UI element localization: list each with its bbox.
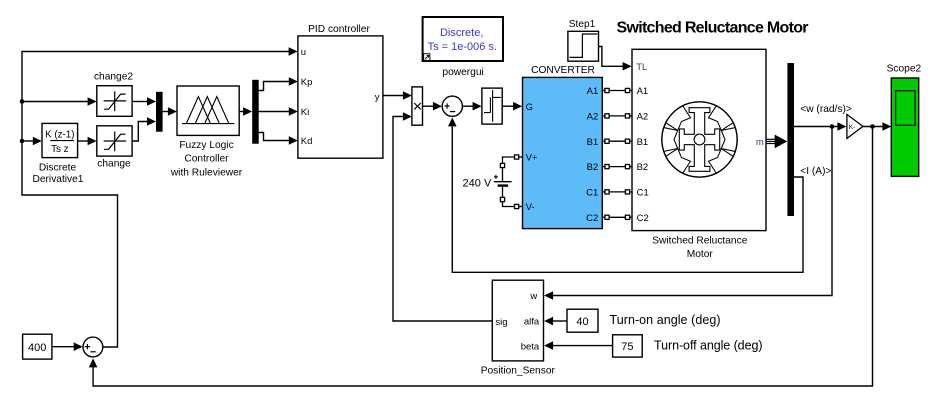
- PID port Ki: [301, 107, 309, 118]
- motor port m: [756, 137, 764, 148]
- DC source V1 240V battery: [500, 155, 522, 209]
- scope screen: [896, 91, 916, 126]
- mux M1: [156, 92, 163, 132]
- motor port C2: [637, 213, 649, 224]
- wire phase C1 converter to motor: [602, 190, 632, 194]
- svg-text:A1: A1: [587, 86, 599, 97]
- motor port C1: [637, 188, 649, 199]
- motor icon stator tooth southeast: [706, 104, 734, 132]
- gain block K: [847, 114, 863, 138]
- battery negative plate: [498, 184, 509, 186]
- sensor port beta: [521, 341, 540, 352]
- svg-text:sig: sig: [495, 317, 507, 328]
- discrete derivative block K(z-1)/Tsz: [42, 123, 78, 157]
- svg-text:75: 75: [621, 341, 633, 353]
- label Derivative1: [33, 174, 84, 185]
- wire 75 to beta: [553, 345, 613, 347]
- svg-text:Turn-off angle (deg): Turn-off angle (deg): [654, 338, 763, 352]
- wire change to mux: [132, 122, 148, 142]
- junction node on gain output: [870, 124, 875, 129]
- motor icon shaft circle: [694, 134, 705, 145]
- svg-text:Step1: Step1: [569, 19, 596, 30]
- svg-text:B1: B1: [637, 137, 649, 148]
- product x symbol: [414, 103, 421, 109]
- svg-text:<I (A)>: <I (A)>: [800, 166, 831, 177]
- position sensor block: [492, 280, 543, 361]
- svg-text:change: change: [97, 159, 131, 170]
- PID port Kp: [301, 77, 313, 88]
- wire sum2 to relay: [462, 105, 473, 107]
- svg-text:TL: TL: [636, 62, 647, 73]
- motor port TL: [636, 62, 647, 73]
- label with Ruleviewer: [170, 167, 243, 178]
- fuzzy logic controller block: [177, 86, 239, 135]
- label change: [97, 159, 131, 170]
- title Switched Reluctance Motor: [617, 19, 809, 36]
- motor block: [632, 49, 766, 230]
- constant block 75: [613, 335, 643, 357]
- svg-text:Ki: Ki: [301, 107, 309, 118]
- label I A: [800, 166, 831, 177]
- svg-text:m: m: [756, 137, 764, 148]
- svg-text:alfa: alfa: [524, 317, 540, 328]
- derivative text K (z-1): [45, 130, 74, 141]
- saturation icon change2: [104, 91, 127, 111]
- svg-text:change2: change2: [94, 71, 133, 82]
- svg-text:Scope2: Scope2: [887, 63, 922, 74]
- svg-text:400: 400: [28, 342, 46, 354]
- wire phase B1 converter to motor: [602, 139, 632, 143]
- fuzzy icon membership functions: [182, 97, 234, 124]
- svg-text:y: y: [375, 92, 380, 103]
- gain text: [849, 124, 856, 131]
- powergui text Ts: [428, 41, 497, 53]
- wire step1 to motor TL: [599, 47, 624, 67]
- motor icon stator tooth northeast: [706, 146, 734, 174]
- svg-text:K-: K-: [849, 124, 856, 131]
- motor port A1: [637, 86, 649, 97]
- powergui block: [423, 17, 503, 61]
- label Controller: [184, 153, 229, 164]
- svg-text:C1: C1: [637, 188, 649, 199]
- battery positive plate: [494, 181, 512, 183]
- svg-text:Discrete,: Discrete,: [440, 27, 483, 39]
- motor icon rotor cross: [679, 108, 719, 172]
- motor port B1: [637, 137, 649, 148]
- junction node at change2 branch: [20, 99, 25, 104]
- PID port u: [301, 47, 306, 58]
- svg-text:Ts = 1e-006 s.: Ts = 1e-006 s.: [428, 41, 497, 53]
- label PID controller: [308, 24, 370, 35]
- sum S1 plus sign: [85, 344, 90, 349]
- svg-text:B2: B2: [637, 162, 649, 173]
- wire to discrete derivative: [22, 140, 33, 142]
- label 240 V: [463, 178, 492, 190]
- wire relay to converter G: [502, 105, 514, 107]
- motor icon ring outline overlay: [662, 102, 737, 177]
- svg-text:CONVERTER: CONVERTER: [531, 65, 595, 76]
- motor icon stator tooth northwest: [664, 146, 692, 174]
- motor port A2: [637, 112, 649, 123]
- derivative fraction bar: [50, 140, 74, 142]
- svg-text:C2: C2: [586, 213, 598, 224]
- svg-text:Switched Reluctance Motor: Switched Reluctance Motor: [617, 19, 809, 36]
- wire demux to Kp: [259, 82, 290, 91]
- svg-text:A1: A1: [637, 86, 649, 97]
- svg-text:K (z-1): K (z-1): [45, 130, 74, 141]
- derivative text Ts z: [51, 144, 69, 155]
- wire fuzzy to demux: [239, 111, 244, 113]
- battery plus sign: [494, 175, 498, 179]
- junction node at derivative branch: [20, 139, 25, 144]
- wire product to sum2: [423, 105, 434, 107]
- label powergui: [442, 67, 483, 78]
- PID controller block: [298, 36, 383, 158]
- svg-text:u: u: [301, 47, 306, 58]
- scope block Scope2: [891, 78, 918, 176]
- motor icon stator tooth southwest: [664, 104, 692, 132]
- motor port B2: [637, 162, 649, 173]
- arrowhead into u: [289, 47, 298, 56]
- svg-text:Derivative1: Derivative1: [33, 174, 84, 185]
- converter port A2: [587, 112, 599, 123]
- converter port A1: [587, 86, 599, 97]
- step block Step1: [568, 31, 599, 61]
- svg-text:beta: beta: [521, 341, 540, 352]
- label Discrete: [39, 162, 77, 173]
- converter port V-: [526, 202, 535, 213]
- PID port y: [375, 92, 380, 103]
- label Fuzzy Logic: [179, 140, 233, 151]
- wire w feedback to position sensor: [553, 127, 832, 296]
- saturation icon change: [104, 132, 127, 152]
- powergui corner icon: [424, 54, 430, 61]
- svg-text:powergui: powergui: [442, 67, 483, 78]
- wire mux to fuzzy: [163, 111, 169, 113]
- svg-text:G: G: [526, 102, 533, 113]
- svg-text:Position_Sensor: Position_Sensor: [481, 366, 556, 377]
- label w rad/s: [800, 104, 852, 115]
- converter port B2: [587, 162, 599, 173]
- sum S1 minus sign: [90, 351, 95, 353]
- powergui text Discrete,: [440, 27, 483, 39]
- svg-text:Ts z: Ts z: [51, 144, 69, 155]
- label Motor: [687, 249, 714, 260]
- wire derivative to change: [78, 140, 89, 142]
- svg-text:<w (rad/s)>: <w (rad/s)>: [800, 104, 852, 115]
- saturation block change2: [97, 86, 132, 117]
- wire 400 to sum1: [52, 346, 74, 348]
- junction node on w wire: [830, 124, 835, 129]
- label change2: [94, 71, 133, 82]
- svg-text:A2: A2: [637, 112, 649, 123]
- svg-text:Kp: Kp: [301, 77, 313, 88]
- motor icon stator tooth east: [721, 128, 737, 152]
- sensor port sig: [495, 317, 507, 328]
- svg-text:Turn-on angle (deg): Turn-on angle (deg): [610, 313, 721, 327]
- svg-text:40: 40: [576, 316, 588, 328]
- relay block: [482, 88, 502, 124]
- svg-text:V-: V-: [526, 202, 535, 213]
- PID port Kd: [301, 136, 313, 147]
- sum S2 plus sign: [445, 103, 450, 108]
- svg-text:C1: C1: [586, 188, 598, 199]
- svg-text:C2: C2: [637, 213, 649, 224]
- svg-text:Switched Reluctance: Switched Reluctance: [652, 235, 747, 246]
- wire phase B2 converter to motor: [602, 165, 632, 169]
- wire phase A2 converter to motor: [602, 114, 632, 118]
- wire sum1 output to PID u input: [22, 52, 289, 348]
- wire 40 to alfa: [553, 320, 567, 322]
- sum S2 minus sign: [450, 111, 455, 113]
- step icon: [569, 34, 597, 57]
- wire demux to Kd: [259, 133, 290, 141]
- product block P1: [412, 87, 423, 125]
- converter block: [523, 77, 603, 228]
- converter port C1: [586, 188, 598, 199]
- svg-text:PID controller: PID controller: [308, 24, 370, 35]
- wire current I feedback to sum2: [452, 126, 803, 272]
- sum block S2: [442, 96, 462, 116]
- label Step1: [569, 19, 596, 30]
- demux D1: [252, 80, 259, 144]
- svg-text:B2: B2: [587, 162, 599, 173]
- label CONVERTER: [531, 65, 595, 76]
- wire sig feedback to product: [393, 117, 492, 322]
- sensor port alfa: [524, 317, 540, 328]
- relay icon: [484, 90, 501, 122]
- converter port B1: [587, 137, 599, 148]
- constant block 400: [23, 334, 52, 359]
- label Turn-off angle: [654, 338, 763, 352]
- svg-text:Motor: Motor: [687, 249, 714, 260]
- converter port V+: [526, 153, 538, 164]
- converter port C2: [586, 213, 598, 224]
- saturation block change: [97, 126, 132, 156]
- svg-text:V+: V+: [526, 153, 538, 164]
- wire change2 to mux: [132, 101, 148, 103]
- svg-text:A2: A2: [587, 112, 599, 123]
- svg-text:w: w: [529, 291, 537, 302]
- svg-text:B1: B1: [587, 137, 599, 148]
- motor icon stator tooth west: [662, 128, 678, 152]
- label Scope2: [887, 63, 922, 74]
- wire speed feedback to sum1: [93, 127, 872, 387]
- label Position_Sensor: [481, 366, 556, 377]
- wire demux to Ki: [259, 111, 290, 113]
- wire PID y to product: [383, 95, 404, 97]
- sum block S1: [83, 337, 103, 357]
- svg-text:240 V: 240 V: [463, 178, 492, 190]
- svg-text:Fuzzy Logic: Fuzzy Logic: [179, 140, 233, 151]
- svg-text:Controller: Controller: [184, 153, 229, 164]
- converter port G: [526, 102, 533, 113]
- svg-text:Kd: Kd: [301, 136, 313, 147]
- bus selector B1: [787, 63, 794, 216]
- wire gain to scope: [863, 126, 883, 128]
- sensor port w: [529, 291, 537, 302]
- label Turn-on angle: [610, 313, 721, 327]
- constant block 40: [567, 309, 598, 332]
- wire to change2: [22, 101, 88, 103]
- wire bus selector w output to gain: [794, 126, 838, 128]
- svg-text:Discrete: Discrete: [39, 162, 77, 173]
- svg-text:with Ruleviewer: with Ruleviewer: [170, 167, 243, 178]
- motor icon outer stator ring: [662, 102, 737, 177]
- wire motor m bus to bus selector: [766, 139, 776, 143]
- wire phase A1 converter to motor: [602, 88, 632, 92]
- label Switched Reluctance: [652, 235, 747, 246]
- wire phase C2 converter to motor: [602, 215, 632, 219]
